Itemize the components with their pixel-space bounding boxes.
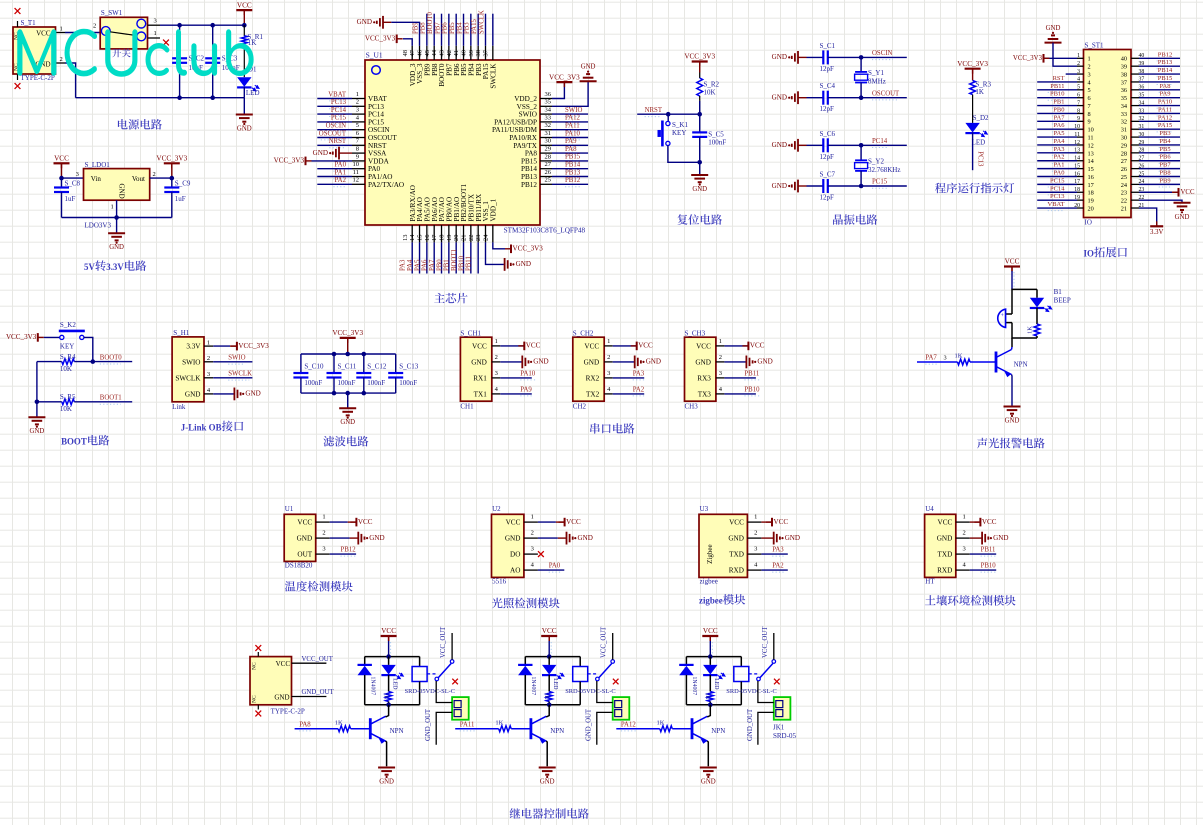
svg-text:PA3: PA3 bbox=[633, 370, 645, 377]
svg-text:PA10: PA10 bbox=[1158, 99, 1172, 106]
capacitor C12 100nF bbox=[363, 354, 365, 373]
svg-text:VCC_3V3: VCC_3V3 bbox=[274, 157, 305, 165]
U1 pin 41 (PB5) bbox=[463, 46, 465, 60]
wire CH3 pin1 to VCC bbox=[724, 345, 748, 347]
svg-text:8: 8 bbox=[1077, 108, 1080, 114]
power VCC_3V3 at ST1 pin 1 bbox=[1043, 54, 1045, 63]
svg-text:100nF: 100nF bbox=[367, 379, 385, 387]
svg-text:37: 37 bbox=[1121, 79, 1127, 86]
svg-text:NRST: NRST bbox=[368, 142, 387, 150]
svg-text:PA9: PA9 bbox=[1160, 91, 1171, 98]
svg-text:VCC: VCC bbox=[584, 342, 599, 350]
ground GND at U1 pin2 bbox=[357, 532, 359, 545]
svg-text:16: 16 bbox=[424, 234, 431, 241]
power VCC at U4 pin1 bbox=[979, 518, 981, 527]
svg-text:2: 2 bbox=[1077, 61, 1080, 67]
svg-text:1: 1 bbox=[495, 338, 498, 345]
svg-text:PA6: PA6 bbox=[1054, 122, 1066, 129]
wire terminal pin1 to relay common PA12 bbox=[758, 681, 774, 703]
svg-text:SWIO: SWIO bbox=[519, 111, 537, 119]
buzzer B1 BEEP bbox=[1006, 313, 1012, 315]
svg-text:BOOT1: BOOT1 bbox=[451, 249, 458, 271]
svg-text:39: 39 bbox=[1121, 64, 1127, 71]
svg-text:SRD-05: SRD-05 bbox=[773, 732, 796, 740]
svg-text:42: 42 bbox=[446, 50, 453, 57]
svg-text:GND_OUT: GND_OUT bbox=[425, 708, 432, 741]
svg-text:47: 47 bbox=[409, 49, 416, 56]
svg-text:S_ST1: S_ST1 bbox=[1085, 42, 1105, 50]
U1 pin 26 (PB13) bbox=[540, 176, 552, 178]
svg-text:15: 15 bbox=[417, 235, 424, 242]
U2 pin 1 (VCC) bbox=[524, 521, 538, 523]
svg-text:VCC: VCC bbox=[696, 342, 711, 350]
svg-text:PB1: PB1 bbox=[1053, 99, 1064, 106]
CH3 pin 3 (RX3) bbox=[716, 377, 725, 379]
svg-text:GND: GND bbox=[1046, 25, 1061, 32]
LED relay PA12 bbox=[709, 657, 711, 665]
svg-text:PB14: PB14 bbox=[565, 162, 581, 169]
wire R4/R5 common to GND bbox=[36, 362, 38, 418]
svg-text:6: 6 bbox=[1077, 93, 1080, 99]
ground GND BOOT bbox=[28, 416, 45, 418]
wire rail to GND bbox=[243, 98, 245, 115]
svg-text:2: 2 bbox=[153, 171, 156, 178]
U1 pin 10 (PA0) bbox=[352, 168, 365, 170]
svg-text:PB15: PB15 bbox=[521, 157, 537, 165]
svg-text:2: 2 bbox=[607, 354, 610, 361]
capacitor C1 12pF bbox=[807, 56, 824, 58]
svg-text:VCC: VCC bbox=[566, 518, 581, 526]
net label PB11 at U4 pin3 bbox=[970, 553, 996, 555]
wire relay emitter to GND PA12 bbox=[707, 741, 708, 766]
svg-text:GND: GND bbox=[245, 390, 260, 398]
svg-text:24: 24 bbox=[1121, 182, 1128, 189]
net label CH2 TX bbox=[613, 393, 645, 395]
transistor NPN relay PA8 bbox=[369, 718, 372, 739]
svg-text:VCC: VCC bbox=[774, 518, 789, 526]
wire U3 pin2 to GND bbox=[761, 537, 773, 539]
relay switch arm PA12 bbox=[757, 677, 761, 681]
net label PB10 at U4 pin4 bbox=[970, 569, 996, 571]
U3 pin 4 (RXD) bbox=[747, 569, 761, 571]
svg-text:GND: GND bbox=[471, 358, 487, 366]
svg-text:36: 36 bbox=[545, 91, 552, 98]
svg-text:12: 12 bbox=[1088, 142, 1094, 149]
resistor 1K alarm bbox=[1036, 308, 1038, 324]
U2 pin 2 (GND) bbox=[524, 537, 538, 539]
power VCC at U2 pin1 bbox=[564, 518, 566, 527]
capacitor C5 100nF bbox=[699, 114, 701, 132]
svg-text:S_U1: S_U1 bbox=[366, 51, 383, 60]
ground GND relay PA8 bbox=[378, 767, 395, 769]
svg-text:PC14: PC14 bbox=[1050, 185, 1065, 192]
U1 pin 29 (PA8) bbox=[540, 152, 552, 154]
svg-text:1K: 1K bbox=[1027, 326, 1034, 334]
svg-text:2: 2 bbox=[531, 530, 534, 537]
svg-text:GND: GND bbox=[695, 358, 711, 366]
module U2 body bbox=[492, 514, 524, 577]
svg-text:PA10: PA10 bbox=[520, 370, 535, 377]
svg-text:2: 2 bbox=[356, 99, 359, 106]
CH1 pin 2 (GND) bbox=[492, 361, 501, 363]
svg-text:PB4: PB4 bbox=[1159, 138, 1171, 145]
op-amp U1 main chip body bbox=[365, 60, 540, 225]
svg-text:LDO3V3: LDO3V3 bbox=[85, 222, 112, 230]
svg-text:GND: GND bbox=[937, 535, 953, 543]
relay contact dashed link PA11 bbox=[588, 673, 597, 675]
wire relay collector PA11 bbox=[546, 705, 549, 717]
power VCC_3V3 filter bbox=[340, 337, 356, 339]
svg-text:PB10: PB10 bbox=[458, 255, 465, 271]
svg-text:GND: GND bbox=[1005, 418, 1020, 425]
svg-text:3: 3 bbox=[207, 371, 210, 378]
svg-text:SRD-05VDC-SL-C: SRD-05VDC-SL-C bbox=[726, 688, 776, 695]
U4 pin 4 (RXD) bbox=[956, 569, 970, 571]
svg-text:PA3: PA3 bbox=[400, 259, 407, 271]
svg-text:S_C6: S_C6 bbox=[820, 130, 836, 138]
U3 pin 1 (VCC) bbox=[747, 521, 761, 523]
svg-text:1N4007: 1N4007 bbox=[369, 677, 375, 696]
svg-text:1: 1 bbox=[531, 514, 534, 521]
wire buzzer bottom bbox=[1012, 323, 1037, 338]
svg-text:VCC_3V3: VCC_3V3 bbox=[365, 35, 396, 43]
title U4 bbox=[925, 595, 1016, 606]
no-connect at U2 pin3 bbox=[538, 551, 544, 557]
switch SW1 bbox=[100, 17, 147, 49]
svg-text:45: 45 bbox=[424, 50, 431, 57]
wire alarm emitter to GND bbox=[1011, 375, 1014, 407]
svg-text:1: 1 bbox=[962, 514, 965, 521]
svg-text:2: 2 bbox=[495, 354, 498, 361]
svg-text:25: 25 bbox=[1121, 174, 1127, 181]
svg-text:GND: GND bbox=[274, 693, 289, 701]
svg-text:zigbee: zigbee bbox=[700, 577, 718, 585]
LED D2 bbox=[965, 123, 979, 133]
svg-text:1: 1 bbox=[1077, 53, 1080, 59]
power VCC bbox=[236, 9, 252, 11]
capacitor C6 12pF bbox=[807, 144, 824, 146]
svg-text:39: 39 bbox=[468, 50, 475, 57]
svg-text:12pF: 12pF bbox=[820, 65, 835, 73]
junction VCC rail / C2 bbox=[177, 23, 182, 28]
wire K2 to BOOT0 node bbox=[84, 337, 93, 361]
svg-text:PC15: PC15 bbox=[368, 118, 384, 126]
svg-text:3: 3 bbox=[495, 370, 498, 377]
svg-text:1: 1 bbox=[607, 338, 610, 345]
T1 NC pin no-connect top bbox=[17, 21, 19, 27]
net label VCC_OUT bbox=[292, 662, 327, 664]
svg-text:GND: GND bbox=[185, 390, 201, 398]
ground GND at CH1 pin2 bbox=[521, 356, 523, 369]
svg-text:PA2: PA2 bbox=[772, 563, 784, 570]
wire C7 to net bbox=[861, 185, 907, 187]
svg-text:PA5: PA5 bbox=[414, 259, 421, 271]
junction crystal PC14 bbox=[859, 143, 864, 148]
svg-text:S_Y1: S_Y1 bbox=[868, 69, 884, 77]
U1 pin 1 (VCC) bbox=[316, 521, 330, 523]
wire U1 VDD_3 to VCC_3V3 bbox=[403, 39, 412, 46]
svg-text:1: 1 bbox=[356, 91, 359, 98]
svg-text:U3: U3 bbox=[700, 505, 709, 513]
svg-text:VCC_3V3: VCC_3V3 bbox=[549, 73, 580, 81]
svg-text:PB9: PB9 bbox=[412, 22, 419, 34]
wire H1 pin1 to VCC_3V3 bbox=[213, 345, 230, 347]
relay contact dashed link PA8 bbox=[427, 673, 436, 675]
svg-text:VCC_OUT: VCC_OUT bbox=[302, 656, 334, 663]
net label PA8 with base resistor bbox=[295, 728, 339, 730]
svg-text:NPN: NPN bbox=[711, 727, 725, 735]
junction filter top bbox=[362, 352, 367, 357]
wire CH2 pin1 to VCC bbox=[613, 345, 637, 347]
resistor R2 10K bbox=[699, 73, 701, 79]
U3 pin 2 (GND) bbox=[747, 537, 761, 539]
U1 pin 12 (PA2/TX/AO) bbox=[352, 183, 365, 185]
ground GND at U3 pin2 bbox=[773, 532, 775, 545]
wire terminal pin2 GND_OUT PA11 bbox=[597, 712, 613, 744]
connector CH3 body bbox=[685, 337, 716, 401]
svg-text:PC14: PC14 bbox=[368, 111, 384, 119]
H1 pin 2 (SWIO) bbox=[204, 361, 213, 363]
power VCC_3V3 at U1 VDD_1 pin 24 bbox=[510, 245, 512, 254]
svg-text:BEEP: BEEP bbox=[1054, 296, 1071, 304]
wire U1 VSS_1 to GND bbox=[486, 242, 504, 264]
junction R5 / gnd wire bbox=[35, 400, 40, 405]
junction relay top PA12 bbox=[708, 654, 713, 659]
svg-text:PC15: PC15 bbox=[1050, 177, 1064, 184]
net label PA11 with base resistor bbox=[455, 728, 499, 730]
svg-text:SWIO: SWIO bbox=[182, 358, 200, 366]
wire K1 to C5 bottom bbox=[668, 146, 700, 163]
svg-text:100nF: 100nF bbox=[399, 379, 417, 387]
U1 pin 9 (VDDA) bbox=[352, 160, 365, 162]
svg-text:PC15: PC15 bbox=[872, 179, 888, 186]
svg-text:2: 2 bbox=[93, 23, 96, 30]
svg-text:NC: NC bbox=[252, 662, 258, 670]
svg-text:PB3: PB3 bbox=[464, 22, 471, 34]
svg-text:GND_OUT: GND_OUT bbox=[586, 708, 593, 741]
U1 pin 4 (PC15) bbox=[352, 121, 365, 123]
wire ST1 pin 23 to VCC bbox=[1139, 191, 1172, 193]
resistor R3 1K bbox=[970, 80, 976, 94]
relay coil PA8 bbox=[419, 657, 421, 667]
svg-text:1N4007: 1N4007 bbox=[691, 677, 697, 696]
junction ground rail / C3 bbox=[210, 95, 215, 100]
svg-text:S_R4: S_R4 bbox=[60, 353, 76, 361]
U1 pin 32 (PA11/USB/DM) bbox=[540, 129, 552, 131]
svg-text:PA7: PA7 bbox=[429, 259, 436, 271]
svg-text:IO: IO bbox=[1085, 219, 1092, 227]
wire relay NO to VCC_OUT PA11 bbox=[612, 633, 614, 660]
svg-text:U1: U1 bbox=[285, 505, 294, 513]
svg-text:PC14: PC14 bbox=[331, 107, 347, 114]
svg-text:VCC: VCC bbox=[237, 1, 252, 9]
ground GND at U1 VSS_1 pin 23 bbox=[504, 258, 506, 271]
svg-text:33: 33 bbox=[1121, 111, 1127, 118]
svg-text:PB5: PB5 bbox=[1159, 146, 1170, 153]
svg-text:31: 31 bbox=[1121, 127, 1127, 134]
svg-text:23: 23 bbox=[1121, 190, 1127, 197]
wire filter bottom rail bbox=[301, 392, 396, 394]
capacitor C11 100nF bbox=[333, 354, 335, 373]
svg-text:PB11: PB11 bbox=[466, 256, 473, 271]
svg-text:S_R2: S_R2 bbox=[704, 81, 720, 89]
module U1 body bbox=[284, 514, 316, 561]
svg-text:TXD: TXD bbox=[938, 551, 953, 559]
svg-text:VCC_OUT: VCC_OUT bbox=[440, 626, 447, 658]
svg-text:11: 11 bbox=[1088, 135, 1094, 142]
title main chip bbox=[434, 293, 467, 304]
net label PB12 at U1 pin3 bbox=[330, 553, 356, 555]
svg-text:PA11/USB/DM: PA11/USB/DM bbox=[492, 126, 538, 134]
U1 pin 20 (PB2/BOOT1) bbox=[463, 225, 465, 242]
svg-text:VCC_3V3: VCC_3V3 bbox=[238, 342, 269, 350]
title serial port circuit bbox=[590, 423, 634, 434]
wire relay bottom rail PA11 bbox=[525, 704, 580, 706]
ground GND at H1 pin4 bbox=[213, 393, 234, 395]
svg-text:1uF: 1uF bbox=[65, 195, 76, 203]
svg-text:PA15: PA15 bbox=[471, 19, 478, 34]
H1 pin 3 (SWCLK) bbox=[204, 377, 213, 379]
pushbutton K1 KEY bbox=[667, 114, 669, 121]
U1 pin 36 (VDD_2) bbox=[540, 98, 552, 100]
svg-text:27: 27 bbox=[545, 161, 552, 168]
U1 pin 44 (BOOT0) bbox=[441, 46, 443, 60]
junction LDO gnd bbox=[114, 215, 119, 220]
svg-text:PA0: PA0 bbox=[549, 563, 561, 570]
U1 pin 42 (PB6) bbox=[455, 46, 457, 60]
ground GND at U4 pin2 bbox=[981, 532, 983, 545]
U1 pin 40 (PB4) bbox=[470, 46, 472, 60]
svg-text:PB13: PB13 bbox=[521, 173, 537, 181]
svg-text:S_SW1: S_SW1 bbox=[101, 9, 123, 17]
svg-text:BOOT: BOOT bbox=[61, 437, 87, 447]
svg-text:VCC_3V3: VCC_3V3 bbox=[957, 60, 988, 68]
LED relay PA11 bbox=[548, 657, 550, 665]
svg-text:TYPE-C-2P: TYPE-C-2P bbox=[271, 708, 305, 716]
junction C5 bottom bbox=[697, 160, 702, 165]
svg-text:30: 30 bbox=[1121, 135, 1127, 142]
svg-text:PA9: PA9 bbox=[565, 138, 577, 145]
svg-text:VCC: VCC bbox=[526, 342, 541, 350]
svg-text:23: 23 bbox=[475, 235, 482, 242]
svg-text:B1: B1 bbox=[1054, 288, 1063, 296]
power VCC_3V3 at H1 pin1 bbox=[236, 342, 238, 351]
svg-text:S_K1: S_K1 bbox=[672, 121, 688, 129]
wire BOOT1 net bbox=[74, 401, 132, 403]
svg-text:VCC: VCC bbox=[276, 660, 291, 668]
svg-text:TX3: TX3 bbox=[698, 390, 712, 398]
svg-text:10K: 10K bbox=[60, 405, 72, 413]
svg-text:PA3: PA3 bbox=[1054, 146, 1065, 153]
svg-text:J-Link OB: J-Link OB bbox=[181, 422, 222, 432]
svg-text:PA1: PA1 bbox=[335, 169, 346, 176]
svg-text:SWIO: SWIO bbox=[565, 107, 582, 114]
svg-text:1: 1 bbox=[60, 26, 63, 33]
svg-text:GND_OUT: GND_OUT bbox=[747, 708, 754, 741]
svg-text:PA4: PA4 bbox=[1054, 138, 1066, 145]
svg-text:21: 21 bbox=[461, 235, 468, 242]
svg-text:GND: GND bbox=[340, 419, 355, 426]
svg-text:OSCOUT: OSCOUT bbox=[319, 130, 347, 137]
svg-text:5: 5 bbox=[356, 122, 359, 129]
svg-text:GND: GND bbox=[584, 358, 600, 366]
svg-text:14: 14 bbox=[409, 234, 416, 241]
svg-text:Link: Link bbox=[172, 403, 186, 411]
svg-text:PB9: PB9 bbox=[1159, 177, 1170, 184]
svg-text:PA8: PA8 bbox=[565, 146, 577, 153]
svg-text:NRST: NRST bbox=[329, 138, 347, 145]
svg-text:10: 10 bbox=[353, 161, 360, 168]
junction crystal OSCOUT bbox=[859, 95, 864, 100]
svg-text:PA5: PA5 bbox=[1054, 130, 1065, 137]
junction filter bottom bbox=[362, 391, 367, 396]
net label SWIO bbox=[213, 361, 252, 363]
connector CH2 body bbox=[573, 337, 604, 401]
svg-text:17: 17 bbox=[431, 234, 438, 241]
wire relay collector PA8 bbox=[386, 705, 389, 717]
svg-text:5516: 5516 bbox=[492, 577, 507, 585]
wire relay emitter to GND PA8 bbox=[386, 741, 387, 766]
U1 pin 14 (PA4/AO) bbox=[419, 225, 421, 242]
svg-text:VCC: VCC bbox=[638, 342, 653, 350]
svg-text:HT: HT bbox=[925, 577, 935, 585]
svg-text:VDDA: VDDA bbox=[368, 157, 390, 165]
svg-text:VCC_3V3: VCC_3V3 bbox=[156, 155, 187, 163]
svg-text:PA2: PA2 bbox=[633, 386, 645, 393]
LED D1 bbox=[243, 45, 245, 77]
wire CH1 pin1 to VCC bbox=[500, 345, 524, 347]
power VCC at CH1 pin1 bbox=[523, 342, 525, 351]
power VCC relay PA8 bbox=[381, 635, 397, 637]
relay switch arm PA11 bbox=[596, 677, 600, 681]
diode 1N4007 PA11 bbox=[524, 657, 526, 665]
svg-text:CH2: CH2 bbox=[573, 402, 587, 410]
wire ST1 pin 21 to 3.3V bbox=[1139, 208, 1157, 226]
svg-text:PA9: PA9 bbox=[520, 386, 532, 393]
svg-text:1K: 1K bbox=[955, 353, 963, 360]
U1 pin 34 (SWIO) bbox=[540, 113, 552, 115]
relay coil PA11 bbox=[579, 657, 581, 667]
wire BOOT0 net bbox=[74, 361, 132, 363]
U1 pin 37 (SWCLK) bbox=[492, 46, 494, 60]
svg-text:38: 38 bbox=[1121, 71, 1127, 78]
title power circuit bbox=[118, 119, 162, 130]
U1 pin 19 (PB1/AO) bbox=[455, 225, 457, 242]
ground GND at ST1 pin 2 bbox=[1051, 34, 1055, 36]
junction ground rail / C2 bbox=[177, 95, 182, 100]
U1 pin 1 (VBAT) bbox=[352, 98, 365, 100]
wire R2 to NRST node bbox=[699, 101, 701, 114]
U1 pin 15 (PA5/AO) bbox=[426, 225, 428, 242]
resistor R4 10K bbox=[37, 361, 62, 363]
svg-text:PB15: PB15 bbox=[1158, 75, 1172, 82]
junction relay bottom PA12 bbox=[708, 703, 713, 708]
voltage regulator LDO1 LDO3V3 bbox=[84, 169, 150, 201]
power VCC at CH3 pin1 bbox=[747, 342, 749, 351]
ground GND at U1 VSSA pin 8 bbox=[338, 147, 340, 160]
svg-text:VCC: VCC bbox=[750, 342, 765, 350]
title program indicator bbox=[935, 183, 1014, 194]
svg-text:PB14: PB14 bbox=[521, 165, 537, 173]
svg-text:100nF: 100nF bbox=[304, 379, 322, 387]
U1 pin 38 (PA15) bbox=[485, 46, 487, 60]
svg-text:10K: 10K bbox=[704, 89, 716, 97]
svg-text:20: 20 bbox=[453, 235, 460, 242]
diode 1N4007 PA12 bbox=[685, 657, 687, 665]
svg-text:RXD: RXD bbox=[729, 567, 744, 575]
svg-text:TXD: TXD bbox=[729, 551, 744, 559]
svg-text:PB12: PB12 bbox=[565, 177, 581, 184]
